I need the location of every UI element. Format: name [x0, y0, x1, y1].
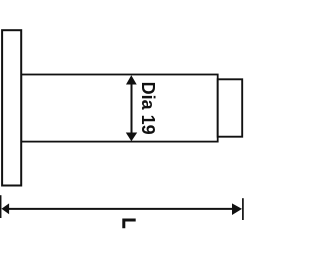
extension line left	[0, 195, 2, 218]
dia dimension line	[131, 83, 133, 134]
step (small end)	[218, 79, 243, 136]
length dimension line	[8, 208, 233, 210]
extension line right	[242, 198, 244, 220]
svg-text:Dia 19: Dia 19	[138, 82, 158, 135]
label L (flipped)	[122, 219, 135, 229]
dia arrowhead top	[126, 75, 137, 84]
cylinder body	[21, 75, 218, 142]
length arrowhead left	[2, 203, 10, 214]
length arrowhead right	[232, 203, 242, 215]
dia arrowhead bottom	[126, 133, 137, 142]
flange plate	[2, 30, 21, 185]
